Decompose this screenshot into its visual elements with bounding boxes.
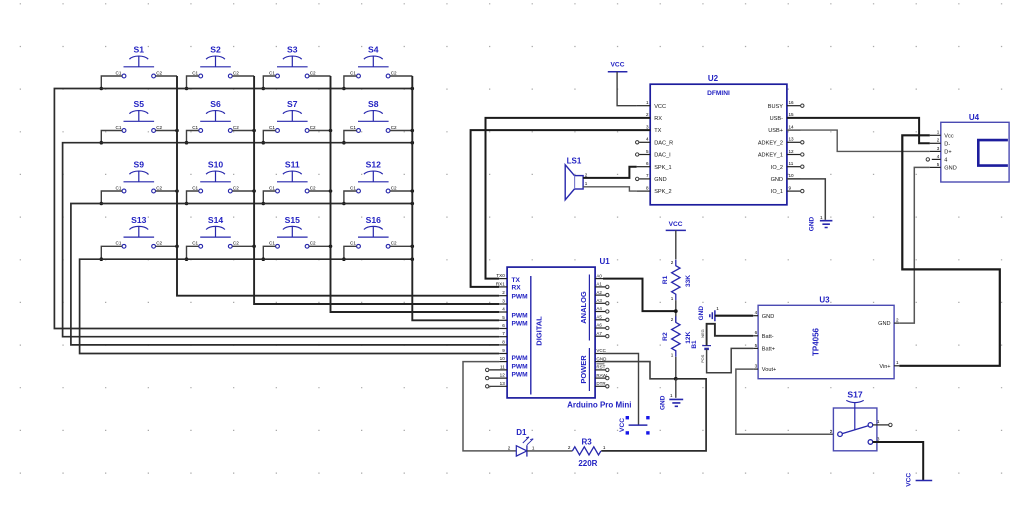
junction C2 col 3 row 2	[329, 129, 333, 133]
svg-text:C2: C2	[156, 185, 162, 190]
wire S10 pin C2 to column	[232, 190, 254, 192]
wire B1 POS to U3 Batt+	[707, 348, 754, 372]
svg-text:C2: C2	[310, 185, 316, 190]
svg-text:A5: A5	[596, 315, 602, 320]
svg-text:VCC: VCC	[596, 348, 606, 353]
power VCC above R1	[666, 221, 686, 230]
svg-text:S12: S12	[366, 160, 382, 170]
svg-text:C1: C1	[350, 241, 356, 246]
junction C2 col 2 row 2	[252, 129, 256, 133]
svg-text:R1: R1	[662, 275, 669, 284]
svg-text:TX0: TX0	[496, 273, 505, 278]
svg-text:C2: C2	[391, 185, 397, 190]
junction C2 col 3 row 3	[329, 189, 333, 193]
svg-text:S15: S15	[285, 215, 301, 225]
svg-text:4: 4	[502, 307, 505, 312]
svg-text:D+: D+	[944, 150, 951, 156]
svg-text:1: 1	[532, 445, 535, 450]
svg-text:3: 3	[646, 124, 649, 129]
svg-text:S14: S14	[208, 215, 224, 225]
wire U2 USB+ to U4 D+	[787, 130, 930, 151]
junction C1 row 4 col 2	[185, 257, 189, 261]
wire S6 pin C2 to column	[232, 130, 254, 132]
switch S13	[116, 215, 163, 248]
svg-text:5: 5	[937, 162, 940, 167]
svg-text:14: 14	[789, 124, 795, 129]
svg-text:SPK_1: SPK_1	[654, 165, 671, 171]
svg-text:1: 1	[646, 100, 649, 105]
wire S13 pin C2 to column	[156, 245, 177, 247]
svg-text:ANALOG: ANALOG	[579, 291, 588, 324]
svg-text:C1: C1	[269, 70, 275, 75]
wire keypad column 2 to U1 pin 3	[254, 76, 499, 304]
svg-text:C2: C2	[391, 70, 397, 75]
resistor R2 12K	[662, 316, 692, 357]
switch S16	[350, 215, 397, 248]
svg-text:C1: C1	[269, 241, 275, 246]
wire S6 pin C1 to row bus	[187, 131, 199, 143]
svg-text:1: 1	[585, 181, 588, 186]
wire S9 pin C1 to row bus	[101, 191, 122, 204]
wire S11 pin C1 to row bus	[263, 191, 275, 204]
svg-text:A7: A7	[596, 331, 602, 336]
svg-text:1: 1	[716, 306, 719, 311]
junction row 2 bus right end	[411, 141, 415, 145]
svg-text:S11: S11	[285, 160, 300, 170]
svg-text:1: 1	[671, 353, 674, 358]
svg-text:2: 2	[646, 112, 649, 117]
svg-text:9: 9	[789, 185, 792, 190]
svg-text:2: 2	[937, 138, 940, 143]
svg-text:1: 1	[603, 445, 606, 450]
svg-text:11: 11	[789, 161, 794, 166]
svg-text:GND: GND	[762, 314, 774, 320]
svg-text:VCC: VCC	[654, 104, 666, 110]
junction row 4 bus right end	[411, 257, 415, 261]
svg-text:U3: U3	[819, 295, 830, 304]
svg-text:S2: S2	[210, 45, 221, 55]
junction row 3 bus right end	[411, 202, 415, 206]
svg-text:RX: RX	[512, 285, 522, 292]
switch S3	[269, 45, 316, 78]
svg-text:2: 2	[568, 445, 571, 450]
ground (rotated) at U3 pin 4	[698, 306, 719, 322]
svg-text:R3: R3	[581, 437, 592, 446]
wire LS1 pin 1 to U2 SPK_2	[583, 187, 637, 191]
svg-text:1: 1	[670, 393, 673, 398]
svg-text:C1: C1	[350, 125, 356, 130]
junction C1 row 3 col 2	[185, 202, 189, 206]
svg-text:D1: D1	[516, 428, 527, 437]
svg-text:S13: S13	[131, 215, 147, 225]
wire U1 VCC to VCC port	[603, 354, 639, 426]
svg-text:C1: C1	[269, 125, 275, 130]
wire keypad row 4 bus to U1 pin 9	[80, 259, 500, 353]
wire U3 GND pin 2 to U4 GND pin 5	[899, 167, 930, 323]
svg-text:VCC: VCC	[905, 473, 912, 487]
wire keypad column 1 to U1 pin 2	[177, 76, 499, 296]
svg-text:C2: C2	[233, 185, 239, 190]
wire S12 pin C2 to column	[390, 190, 412, 192]
svg-text:C2: C2	[156, 241, 162, 246]
svg-text:Arduino Pro Mini: Arduino Pro Mini	[567, 401, 631, 410]
svg-text:SPK_2: SPK_2	[654, 189, 671, 195]
connector U4 USB	[926, 113, 1009, 182]
svg-text:GND: GND	[771, 177, 783, 183]
switch S5	[116, 99, 163, 132]
svg-text:VCC: VCC	[611, 62, 625, 69]
svg-text:TX: TX	[512, 277, 521, 284]
LED D1	[508, 428, 535, 457]
svg-text:A3: A3	[596, 298, 602, 303]
svg-text:2: 2	[671, 317, 674, 322]
junction C1 row 4 col 4	[342, 257, 346, 261]
svg-text:3: 3	[877, 436, 880, 441]
junction C1 row 2 col 4	[342, 141, 346, 145]
svg-text:POWER: POWER	[579, 355, 588, 384]
svg-text:13: 13	[789, 137, 795, 142]
wire S4 pin C1 to row bus	[344, 76, 357, 89]
wire keypad column 3 to U1 pin 4	[331, 76, 500, 312]
junction C1 row 4 col 3	[262, 257, 266, 261]
svg-text:2: 2	[502, 290, 505, 295]
svg-text:C1: C1	[192, 125, 198, 130]
svg-text:Batt-: Batt-	[762, 334, 774, 340]
svg-text:GND: GND	[809, 216, 816, 231]
svg-text:PWM: PWM	[512, 363, 529, 370]
junction C2 col 2 row 4	[252, 245, 256, 249]
svg-text:13: 13	[500, 381, 506, 386]
svg-text:ADKEY_2: ADKEY_2	[758, 140, 783, 146]
resistor R1 33K	[662, 260, 692, 301]
wire S13 pin C1 to row bus	[101, 246, 122, 259]
svg-text:3: 3	[502, 299, 505, 304]
svg-text:C2: C2	[156, 125, 162, 130]
wire S10 pin C1 to row bus	[187, 191, 199, 204]
svg-text:S17: S17	[847, 390, 863, 400]
svg-text:DAC_R: DAC_R	[654, 140, 673, 146]
switch S12	[350, 160, 397, 193]
speaker LS1	[565, 157, 588, 200]
wire U2 GND pin 10 to ground	[787, 179, 825, 220]
switch S14	[192, 215, 239, 248]
svg-text:S5: S5	[134, 99, 145, 109]
svg-text:C2: C2	[310, 125, 316, 130]
wire U1 GND to node	[603, 362, 676, 379]
wire S5 pin C2 to column	[156, 130, 177, 132]
power VCC at S17	[905, 473, 932, 487]
svg-text:U2: U2	[708, 74, 719, 83]
svg-text:PWM: PWM	[512, 372, 529, 379]
wire S11 pin C2 to column	[309, 190, 330, 192]
svg-text:PWM: PWM	[512, 320, 529, 327]
svg-text:10: 10	[789, 173, 795, 178]
wire S2 pin C2 to column	[232, 75, 254, 77]
wire S8 pin C1 to row bus	[344, 131, 357, 143]
switch S9	[116, 160, 163, 193]
svg-text:S6: S6	[210, 99, 221, 109]
power VCC below U1 (selected)	[619, 416, 650, 435]
svg-text:1: 1	[671, 296, 674, 301]
wire S14 pin C2 to column	[232, 245, 254, 247]
wire S8 pin C2 to column	[390, 130, 412, 132]
svg-text:S3: S3	[287, 45, 298, 55]
wire R1 bottom to node	[675, 300, 677, 322]
svg-text:2: 2	[671, 260, 674, 265]
svg-text:VCC: VCC	[619, 418, 626, 432]
svg-text:1: 1	[937, 130, 940, 135]
svg-text:U1: U1	[600, 257, 611, 266]
svg-text:6: 6	[502, 323, 505, 328]
wire U2 RX to U1 TX0	[486, 118, 651, 279]
svg-text:A2: A2	[596, 290, 602, 295]
wire U1 pin 10 to D1	[463, 362, 516, 451]
svg-text:33K: 33K	[685, 275, 692, 287]
svg-text:C1: C1	[116, 241, 122, 246]
svg-text:GND: GND	[660, 395, 667, 410]
svg-text:C1: C1	[350, 185, 356, 190]
svg-text:GND: GND	[698, 306, 705, 321]
ground at U2 pin 10	[809, 215, 833, 231]
junction C1 row 2 col 2	[185, 141, 189, 145]
svg-text:BUSY: BUSY	[768, 104, 784, 110]
IC U2 DFMINI	[636, 74, 805, 205]
wire R2 bottom to GND node	[675, 357, 677, 379]
svg-text:220R: 220R	[578, 459, 597, 468]
wire S3 pin C2 to column	[309, 75, 330, 77]
junction C1 row 1 col 1	[100, 87, 104, 91]
svg-text:S16: S16	[366, 215, 382, 225]
svg-text:USB-: USB-	[770, 116, 784, 122]
svg-text:C2: C2	[391, 125, 397, 130]
svg-text:S10: S10	[208, 160, 224, 170]
wire ground to U3 GND pin 4	[715, 315, 753, 317]
svg-text:RX: RX	[654, 116, 662, 122]
svg-text:C1: C1	[192, 241, 198, 246]
switch S11	[269, 160, 316, 193]
svg-text:2: 2	[508, 445, 511, 450]
svg-text:10: 10	[500, 356, 506, 361]
svg-text:IO_2: IO_2	[771, 165, 783, 171]
switch S15	[269, 215, 316, 248]
wire S1 pin C1 to row bus	[101, 76, 122, 89]
svg-text:A0: A0	[596, 273, 602, 278]
svg-text:C2: C2	[233, 70, 239, 75]
svg-text:RST: RST	[596, 365, 605, 370]
wire U4 Vcc to U3 Vin+	[899, 135, 1000, 365]
wire keypad column 4 to U1 pin 5	[412, 76, 499, 320]
junction C1 row 1 col 3	[262, 87, 266, 91]
svg-text:DIGITAL: DIGITAL	[535, 316, 544, 346]
wire LS1 pin 2 to U2 SPK_1	[583, 167, 637, 178]
svg-text:Vin+: Vin+	[879, 364, 890, 370]
wire keypad row 3 bus to U1 pin 8	[71, 204, 499, 345]
wire D1 to R3	[527, 450, 573, 452]
switch S10	[192, 160, 239, 193]
svg-text:C2: C2	[310, 70, 316, 75]
IC U1 Arduino Pro Mini	[486, 257, 632, 410]
junction C2 col 4 row 2	[411, 129, 415, 133]
svg-text:5: 5	[755, 343, 758, 348]
wire node to R3 (via right drop)	[601, 379, 706, 451]
svg-text:9: 9	[502, 348, 505, 353]
svg-text:NEG: NEG	[700, 329, 705, 337]
svg-text:C1: C1	[116, 125, 122, 130]
svg-text:C2: C2	[391, 241, 397, 246]
svg-text:S9: S9	[134, 160, 145, 170]
junction C1 row 3 col 4	[342, 202, 346, 206]
IC U3 TP4056	[753, 295, 899, 378]
svg-text:12: 12	[500, 373, 506, 378]
junction C2 col 1 row 2	[175, 129, 179, 133]
svg-text:C1: C1	[192, 70, 198, 75]
junction C2 col 1 row 3	[175, 189, 179, 193]
svg-text:1: 1	[896, 360, 899, 365]
svg-text:8: 8	[502, 339, 505, 344]
svg-text:12: 12	[789, 149, 795, 154]
wire node to ground symbol	[675, 379, 677, 398]
svg-text:3: 3	[755, 364, 758, 369]
svg-text:D-: D-	[944, 141, 950, 147]
svg-text:A6: A6	[596, 323, 602, 328]
svg-text:2: 2	[830, 429, 833, 434]
junction R1/R2/A0	[674, 309, 678, 313]
svg-text:7: 7	[646, 173, 649, 178]
wire S17 pin 3 to VCC	[873, 442, 924, 481]
svg-text:DTR: DTR	[596, 381, 606, 386]
junction C1 row 3 col 1	[100, 202, 104, 206]
svg-text:C2: C2	[233, 241, 239, 246]
svg-text:2: 2	[896, 318, 899, 323]
svg-text:4: 4	[944, 158, 947, 164]
wire S15 pin C2 to column	[309, 245, 330, 247]
svg-text:Batt+: Batt+	[762, 347, 775, 353]
switch S4	[350, 45, 397, 78]
svg-text:GND: GND	[878, 321, 890, 327]
svg-text:VCC: VCC	[669, 221, 683, 228]
svg-text:C1: C1	[269, 185, 275, 190]
junction C2 col 4 row 4	[411, 245, 415, 249]
svg-text:4: 4	[646, 137, 649, 142]
svg-text:6: 6	[755, 330, 758, 335]
svg-text:PWM: PWM	[512, 293, 529, 300]
svg-text:B1: B1	[691, 340, 698, 349]
junction C1 row 1 col 2	[185, 87, 189, 91]
svg-text:ADKEY_1: ADKEY_1	[758, 153, 783, 159]
svg-text:15: 15	[789, 112, 795, 117]
battery B1	[691, 329, 711, 363]
svg-text:C2: C2	[310, 241, 316, 246]
svg-text:C1: C1	[350, 70, 356, 75]
switch S6	[192, 99, 239, 132]
svg-text:R2: R2	[662, 332, 669, 341]
wire S16 pin C2 to column	[390, 245, 412, 247]
wire VCC to U2 pin 1	[617, 72, 637, 106]
ground below R2	[660, 393, 684, 410]
switch S7	[269, 99, 316, 132]
junction C2 col 3 row 4	[329, 245, 333, 249]
wire S5 pin C1 to row bus	[101, 131, 122, 143]
svg-text:C2: C2	[233, 125, 239, 130]
junction C2 col 1 row 4	[175, 245, 179, 249]
svg-text:PWM: PWM	[512, 313, 529, 320]
svg-text:S8: S8	[368, 99, 379, 109]
svg-text:8: 8	[646, 185, 649, 190]
svg-text:GND: GND	[596, 356, 607, 361]
junction GND node below R2	[674, 377, 678, 381]
switch S2	[192, 45, 239, 78]
svg-text:S1: S1	[134, 45, 145, 55]
svg-text:A1: A1	[596, 282, 602, 287]
svg-text:1: 1	[877, 419, 880, 424]
junction row 1 bus right end	[411, 87, 415, 91]
wire S1 pin C2 to column	[156, 75, 177, 77]
wire keypad row 2 bus to U1 pin 7	[63, 143, 500, 337]
junction C1 row 3 col 3	[262, 202, 266, 206]
svg-text:5: 5	[502, 315, 505, 320]
svg-text:4: 4	[755, 310, 758, 315]
svg-text:S7: S7	[287, 99, 298, 109]
wire S4 pin C2 to column	[390, 75, 412, 77]
svg-text:GND: GND	[654, 177, 666, 183]
svg-text:USB+: USB+	[768, 128, 783, 134]
svg-text:7: 7	[502, 331, 505, 336]
wire U1 A0 to R1/R2 node	[603, 279, 676, 312]
svg-text:6: 6	[646, 161, 649, 166]
svg-text:DAC_I: DAC_I	[654, 153, 671, 159]
wire S15 pin C1 to row bus	[263, 246, 275, 259]
junction C1 row 2 col 1	[100, 141, 104, 145]
svg-text:LS1: LS1	[567, 157, 582, 166]
wire U2 USB- to U4 D-	[787, 118, 930, 143]
junction C1 row 2 col 3	[262, 141, 266, 145]
junction C1 row 1 col 4	[342, 87, 346, 91]
svg-text:TP4056: TP4056	[812, 327, 821, 356]
wire S3 pin C1 to row bus	[263, 76, 275, 89]
resistor R3 220R	[568, 437, 606, 468]
svg-text:C1: C1	[192, 185, 198, 190]
svg-text:4: 4	[937, 154, 940, 159]
svg-text:Vcc: Vcc	[944, 133, 954, 139]
wire S14 pin C1 to row bus	[187, 246, 199, 259]
svg-text:RX1: RX1	[496, 281, 505, 286]
svg-text:GND: GND	[944, 166, 956, 172]
svg-text:U4: U4	[969, 113, 980, 122]
svg-text:DFMINI: DFMINI	[707, 90, 730, 97]
svg-text:S4: S4	[368, 45, 379, 55]
svg-text:5: 5	[646, 149, 649, 154]
svg-text:POS: POS	[700, 354, 705, 363]
junction C1 row 4 col 1	[100, 257, 104, 261]
svg-text:Vout+: Vout+	[762, 367, 776, 373]
wire S9 pin C2 to column	[156, 190, 177, 192]
junction C2 col 4 row 3	[411, 189, 415, 193]
switch S17	[830, 390, 880, 451]
junction C2 col 2 row 3	[252, 189, 256, 193]
wire B1 NEG to U3 Batt-	[707, 324, 754, 346]
wire S7 pin C1 to row bus	[263, 131, 275, 143]
svg-text:IO_1: IO_1	[771, 189, 783, 195]
power VCC above U2	[608, 62, 628, 72]
wire S17 pin 1 no-connect stub	[873, 424, 889, 426]
svg-text:C1: C1	[116, 185, 122, 190]
svg-text:C1: C1	[116, 70, 122, 75]
wire S12 pin C1 to row bus	[344, 191, 357, 204]
svg-text:1: 1	[820, 215, 823, 220]
svg-text:11: 11	[500, 364, 505, 369]
svg-text:TX: TX	[654, 128, 661, 134]
svg-text:16: 16	[789, 100, 795, 105]
